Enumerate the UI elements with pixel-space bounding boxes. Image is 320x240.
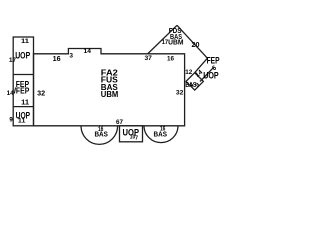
svg-text:UOP: UOP [15, 51, 30, 61]
svg-text:32: 32 [176, 89, 184, 96]
svg-text:BAS: BAS [94, 129, 108, 138]
svg-text:7: 7 [135, 135, 138, 141]
bay window arc left BAS [81, 126, 118, 145]
svg-text:32: 32 [37, 91, 45, 98]
BAS small diamond [186, 73, 203, 90]
FEP/UOP porch NW side [195, 58, 208, 72]
svg-text:20: 20 [192, 42, 200, 49]
svg-text:17: 17 [9, 58, 17, 64]
svg-text:UBM: UBM [101, 90, 119, 99]
svg-text:FEP: FEP [207, 55, 220, 65]
bottom UOP box [120, 126, 143, 142]
svg-text:14: 14 [7, 91, 15, 97]
svg-text:67: 67 [116, 119, 123, 126]
svg-text:16: 16 [167, 55, 174, 62]
svg-text:3: 3 [69, 53, 73, 60]
left column box UOP/FEP/UOP [13, 37, 33, 126]
svg-text:11: 11 [18, 118, 26, 125]
svg-text:12: 12 [185, 69, 192, 76]
svg-text:BAS: BAS [154, 129, 168, 138]
svg-text:FEP: FEP [16, 86, 30, 96]
svg-text:11: 11 [21, 100, 29, 107]
divider UOP/FEP [13, 74, 33, 76]
main building outline [34, 49, 185, 126]
svg-text:14: 14 [84, 48, 92, 55]
svg-text:11: 11 [21, 38, 29, 45]
svg-text:16: 16 [53, 56, 61, 63]
FEP/UOP porch SE parallel side [200, 67, 214, 81]
svg-text:37: 37 [144, 55, 152, 62]
divider FEP/UOP [13, 106, 33, 108]
svg-text:UBM: UBM [168, 40, 184, 47]
diamond wing left side [148, 25, 178, 54]
svg-text:UOP: UOP [203, 71, 219, 81]
diamond wing right side [177, 25, 207, 58]
bay window arc right BAS [144, 126, 178, 143]
